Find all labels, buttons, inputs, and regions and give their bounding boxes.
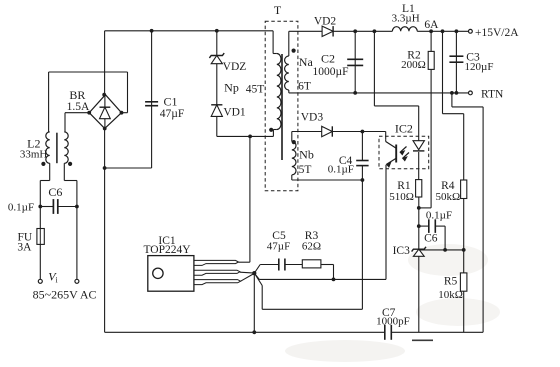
svg-text:6A: 6A <box>424 19 439 31</box>
svg-text:IC3: IC3 <box>393 245 411 257</box>
svg-text:120µF: 120µF <box>465 61 494 73</box>
svg-text:0.1µF: 0.1µF <box>328 164 354 176</box>
svg-text:TOP224Y: TOP224Y <box>143 244 191 256</box>
svg-text:VDZ: VDZ <box>223 61 247 73</box>
svg-text:Np: Np <box>224 81 239 95</box>
svg-text:200Ω: 200Ω <box>401 59 426 71</box>
svg-text:5T: 5T <box>299 164 312 176</box>
svg-text:3.3µH: 3.3µH <box>392 13 420 25</box>
svg-text:0.1µF: 0.1µF <box>426 210 452 222</box>
svg-text:VD2: VD2 <box>314 16 337 28</box>
svg-text:C6: C6 <box>48 185 62 199</box>
svg-text:45T: 45T <box>246 84 265 96</box>
svg-text:1000µF: 1000µF <box>312 66 348 78</box>
svg-text:47µF: 47µF <box>267 241 290 253</box>
svg-text:+15V/2A: +15V/2A <box>475 27 519 39</box>
svg-text:50kΩ: 50kΩ <box>435 191 460 203</box>
svg-text:C1: C1 <box>163 95 177 109</box>
svg-text:3A: 3A <box>17 242 32 254</box>
svg-text:BR: BR <box>69 88 85 102</box>
svg-text:VD1: VD1 <box>223 107 246 119</box>
svg-text:Na: Na <box>299 55 314 69</box>
svg-text:RTN: RTN <box>481 89 504 101</box>
svg-text:T: T <box>274 3 282 17</box>
svg-text:33mH: 33mH <box>20 149 48 161</box>
svg-text:47µF: 47µF <box>160 108 185 120</box>
svg-text:510Ω: 510Ω <box>389 191 414 203</box>
svg-text:C6: C6 <box>424 233 438 245</box>
svg-text:IC2: IC2 <box>395 122 413 136</box>
svg-text:6T: 6T <box>298 81 311 93</box>
svg-text:Nb: Nb <box>299 148 314 162</box>
svg-text:10kΩ: 10kΩ <box>438 289 463 301</box>
svg-text:0.1µF: 0.1µF <box>8 202 34 214</box>
svg-text:62Ω: 62Ω <box>302 241 321 253</box>
svg-text:R5: R5 <box>444 276 458 288</box>
svg-text:1000pF: 1000pF <box>376 316 410 328</box>
svg-text:85~265V AC: 85~265V AC <box>33 288 97 302</box>
svg-text:VD3: VD3 <box>301 112 324 124</box>
svg-text:1.5A: 1.5A <box>67 101 90 113</box>
svg-text:C2: C2 <box>321 52 335 66</box>
